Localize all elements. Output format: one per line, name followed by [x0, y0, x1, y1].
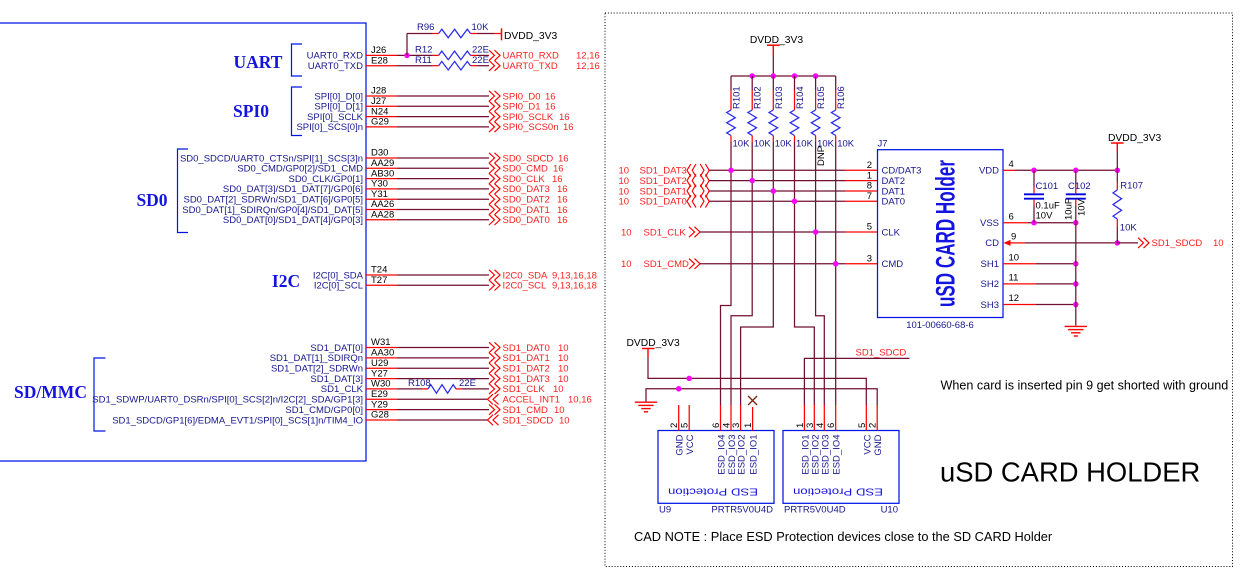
junction SD1_DAT3/pull-up	[728, 168, 734, 174]
svg-text:4: 4	[1009, 159, 1014, 170]
wire net SD0_DAT1	[397, 209, 489, 211]
junction SH2/ground column	[1073, 281, 1079, 287]
svg-text:C102: C102	[1068, 181, 1091, 192]
wire net ACCEL_INT1	[397, 398, 488, 400]
net flag ACCEL_INT1	[488, 394, 592, 406]
pin Y29 SD1_CMD/GP0[0]	[285, 399, 397, 416]
net flag SD1_SDCD (right)	[1138, 238, 1224, 250]
pin 11 SH2 wire	[1003, 273, 1076, 284]
wire ground column	[1075, 206, 1077, 326]
DNP marking R105	[816, 146, 827, 166]
UART group bracket	[292, 44, 303, 76]
wire net SD0_DAT3	[397, 188, 489, 190]
svg-text:ESD_IO4: ESD_IO4	[717, 435, 728, 475]
svg-text:10: 10	[1009, 253, 1020, 264]
power DVDD_3V3 (ESD)	[627, 338, 680, 357]
svg-text:uSD CARD Holder: uSD CARD Holder	[931, 160, 961, 307]
junction SD1_CMD/pull-up	[833, 261, 839, 267]
wire SD1_SDCD (ESD)	[804, 358, 909, 405]
svg-text:10K: 10K	[796, 138, 814, 149]
pin stub J7 pin 5	[845, 222, 878, 233]
pin AA29 SD0_CMD/GP0[2]/SD1_CMD	[237, 158, 397, 175]
svg-text:VSS: VSS	[980, 218, 999, 229]
wire pull-up column R102 to ESD	[731, 142, 752, 405]
svg-text:10K: 10K	[733, 138, 751, 149]
wire net SD1_DAT0	[397, 347, 489, 349]
pin 6 VSS wire	[1003, 211, 1076, 222]
svg-text:22E: 22E	[459, 378, 476, 389]
svg-text:SPI0: SPI0	[233, 101, 269, 121]
wire net SPI0_D1	[397, 105, 489, 107]
svg-text:R106: R106	[836, 86, 847, 109]
svg-text:1: 1	[867, 170, 872, 181]
svg-text:SD/MMC: SD/MMC	[14, 382, 87, 402]
wire SD1_CLK to J7	[700, 231, 845, 233]
net flag SPI0_SCS0n	[489, 122, 574, 134]
svg-text:SH1: SH1	[981, 259, 999, 270]
wire net SPI0_D0	[397, 95, 489, 97]
net label SD1_SDCD	[856, 347, 907, 358]
net flag I2C0_SCL	[489, 280, 597, 292]
wire net SD0_SDCD	[397, 157, 489, 159]
svg-text:ESD_IO4: ESD_IO4	[832, 435, 843, 475]
resistor R105 10K	[811, 76, 834, 149]
svg-text:DNP: DNP	[816, 146, 827, 166]
wire UART0_RXD to R12	[397, 54, 433, 56]
wire SD1_CLK to R108	[397, 388, 422, 390]
net flag SPI0_SCLK	[489, 111, 570, 123]
svg-text:R104: R104	[795, 86, 806, 109]
capacitor C102 10uF 10V	[1064, 170, 1091, 220]
net flag SD1_DAT3	[489, 373, 569, 385]
SD0 group bracket	[178, 149, 189, 233]
pin stub ESD x=678.7	[678, 405, 680, 431]
junction SD1_CLK/pull-up	[813, 229, 819, 235]
svg-text:ESD_IO2: ESD_IO2	[737, 435, 748, 475]
net flag SD1_SDCD	[488, 415, 570, 427]
pin G29 SPI[0]_SCS[0]n	[296, 117, 397, 134]
svg-text:SD1_DAT[0]: SD1_DAT[0]	[310, 343, 363, 354]
svg-text:PRTR5V0U4D: PRTR5V0U4D	[711, 505, 773, 516]
svg-text:R96: R96	[417, 22, 434, 33]
pin T24 I2C[0]_SDA	[313, 265, 397, 282]
svg-text:CLK: CLK	[882, 227, 901, 238]
svg-text:U9: U9	[659, 505, 671, 516]
wire GND rail	[646, 389, 877, 405]
wire pull-up bus	[731, 75, 836, 77]
svg-text:R108: R108	[408, 378, 431, 389]
wire DVDD_3V3 to pull-up bus	[772, 56, 774, 77]
pin stub ESD x=731.0	[730, 405, 732, 431]
power DVDD_3V3 (R107)	[1108, 133, 1161, 152]
pin stub J7 pin 8	[845, 181, 878, 192]
svg-text:10K: 10K	[837, 138, 855, 149]
svg-text:DAT2: DAT2	[882, 176, 906, 187]
svg-text:SD1_CLK: SD1_CLK	[321, 384, 364, 395]
pin stub ESD x=814.3	[813, 405, 815, 431]
svg-text:SD0: SD0	[136, 190, 167, 210]
capacitor C101 0.1uF 10V	[1024, 170, 1060, 222]
net flag SD0_DAT0	[489, 215, 568, 227]
junction VSS/C102	[1073, 220, 1079, 226]
svg-text:10: 10	[621, 259, 632, 270]
pin Y31 SD0_DAT[2]_SDRWn/SD1_DAT[6]/GP0[5]	[183, 189, 397, 206]
resistor R107 10K	[1113, 152, 1143, 243]
pin W31 SD1_DAT[0]	[310, 337, 397, 354]
svg-text:T27: T27	[371, 275, 387, 286]
section label SD0	[136, 190, 167, 210]
power DVDD_3V3 (R96)	[502, 28, 558, 42]
svg-text:R103: R103	[774, 86, 785, 109]
pin E28 UART0_TXD	[308, 55, 397, 72]
junction SH1/ground column	[1073, 261, 1079, 267]
svg-text:CD: CD	[985, 238, 999, 249]
net flag SD0_DAT3	[489, 184, 568, 196]
svg-text:R107: R107	[1120, 181, 1143, 192]
section label UART	[234, 52, 283, 72]
wire net SD1_DAT2	[397, 367, 489, 369]
pin D30 SD0_SDCD/UART0_CTSn/SPI[1]_SCS[3]n	[180, 148, 397, 165]
junction VDD/C101	[1031, 168, 1037, 174]
svg-text:5: 5	[867, 222, 872, 233]
svg-text:10K: 10K	[754, 138, 772, 149]
wire net SD1_CMD	[397, 409, 489, 411]
svg-text:PRTR5V0U4D: PRTR5V0U4D	[784, 505, 846, 516]
wire net SPI0_SCS0n	[397, 126, 489, 128]
svg-text:10: 10	[621, 227, 632, 238]
wire net SD0_CLK	[397, 178, 489, 180]
resistor R12 22E	[415, 45, 489, 60]
svg-text:22E: 22E	[472, 55, 489, 66]
net flag SD1_DAT1	[619, 185, 710, 198]
svg-text:10K: 10K	[1120, 222, 1138, 233]
junction SD1_DAT1/pull-up	[771, 188, 777, 194]
resistor R101 10K	[727, 76, 750, 149]
resistor R102 10K	[748, 76, 771, 149]
net flag SD1_CLK	[621, 227, 700, 239]
pin stub J7 pin 3	[845, 254, 878, 265]
svg-text:SD1_CLK: SD1_CLK	[644, 227, 687, 238]
wire net I2C0_SCL	[397, 284, 489, 286]
wire SD1_DAT3 to J7	[709, 169, 845, 171]
section label I2C	[272, 271, 300, 291]
svg-text:10uF: 10uF	[1064, 198, 1075, 220]
pin AA30 SD1_DAT[1]_SDIRQn	[270, 348, 397, 365]
svg-text:U29: U29	[371, 358, 388, 369]
junction GND rail/U9	[676, 386, 682, 392]
wire pull-up column R101 to ESD	[721, 142, 732, 405]
svg-text:SD1_SDCD10: SD1_SDCD10	[503, 415, 570, 426]
net flag SD1_DAT2	[619, 174, 710, 187]
wire net SPI0_SCLK	[397, 116, 489, 118]
svg-text:E28: E28	[371, 55, 388, 66]
no-connect X U9 pin 1	[748, 396, 757, 405]
pin AB30 SD0_CLK/GP0[1]	[289, 168, 397, 185]
svg-text:uSD CARD HOLDER: uSD CARD HOLDER	[940, 457, 1200, 488]
svg-text:DAT0: DAT0	[882, 197, 906, 208]
svg-text:R102: R102	[753, 86, 764, 109]
net flag SD1_CMD	[621, 259, 700, 271]
junction VDD/C102	[1073, 168, 1079, 174]
svg-text:7: 7	[867, 191, 872, 202]
note: card inserted	[941, 379, 1229, 393]
junction bus/R103	[771, 73, 777, 79]
pin 10 SH1 wire	[1003, 253, 1076, 264]
SD/MMC group bracket	[94, 358, 106, 431]
resistor R106 10K	[831, 76, 854, 149]
svg-text:R105: R105	[816, 86, 827, 109]
svg-text:ESD_IO1: ESD_IO1	[749, 435, 760, 475]
svg-text:R11: R11	[415, 55, 432, 66]
net flag SD0_CMD	[489, 163, 564, 175]
svg-text:VCC: VCC	[862, 434, 873, 454]
ESD protection U10 PRTR5V0U4D	[783, 423, 899, 516]
svg-text:101-00660-68-6: 101-00660-68-6	[906, 320, 974, 331]
junction VSS/C101	[1031, 220, 1037, 226]
svg-text:10K: 10K	[472, 22, 490, 33]
svg-text:AA28: AA28	[371, 210, 394, 221]
pin J28 SPI[0]_D[0]	[314, 86, 397, 103]
pin J26 UART0_RXD	[307, 45, 397, 62]
pin Y27 SD1_DAT[3]	[310, 368, 397, 385]
svg-text:SD1_SDCD10: SD1_SDCD10	[1152, 238, 1224, 249]
svg-text:J7: J7	[878, 138, 888, 149]
pin J27 SPI[0]_D[1]	[314, 96, 397, 113]
net flag SD0_SDCD	[489, 153, 569, 165]
pin stub ESD x=804.4	[803, 405, 805, 431]
MCU block body	[0, 23, 366, 461]
svg-text:ESD_IO3: ESD_IO3	[820, 435, 831, 475]
resistor R11 22E	[415, 55, 489, 70]
svg-text:G28: G28	[371, 410, 389, 421]
pin stub ESD x=824.3	[823, 405, 825, 431]
svg-text:3: 3	[867, 254, 872, 265]
wire net SD1_DAT1	[397, 357, 489, 359]
svg-text:10: 10	[619, 176, 630, 187]
pin stub ESD x=689.2	[688, 405, 690, 431]
junction UART0_RXD/R96	[404, 53, 410, 59]
wire CD to flag	[1117, 242, 1138, 244]
svg-text:UART0_TXD: UART0_TXD	[308, 61, 363, 72]
pin U29 SD1_DAT[2]_SDRWn	[271, 358, 397, 375]
svg-text:SH3: SH3	[981, 300, 999, 311]
svg-text:I2C: I2C	[272, 271, 300, 291]
net flag SD1_DAT0	[619, 195, 710, 208]
pin T27 I2C[0]_SCL	[314, 275, 397, 292]
svg-text:CMD: CMD	[882, 259, 904, 270]
junction bus/R105	[813, 73, 819, 79]
pin E29 SD1_SDWP/UART0_DSRn/SPI[0]_SCS[2]n/I2C[2]_SDA/GP1[3]	[92, 389, 397, 406]
net flag I2C0_SDA	[489, 270, 597, 282]
pin stub ESD x=866.3	[865, 405, 867, 431]
junction VDD/R107	[1115, 168, 1121, 174]
svg-text:I2C[0]_SCL: I2C[0]_SCL	[314, 281, 363, 292]
pin AA28 SD0_DAT[0]/SD1_DAT[4]/GP0[3]	[223, 210, 397, 227]
svg-text:Y29: Y29	[371, 399, 388, 410]
svg-text:10V: 10V	[1036, 211, 1054, 222]
svg-text:DVDD_3V3: DVDD_3V3	[504, 31, 557, 42]
svg-text:12: 12	[1009, 293, 1020, 304]
wire net SD0_DAT2	[397, 198, 489, 200]
note: CAD NOTE	[634, 529, 1053, 544]
junction bus/R104	[792, 73, 798, 79]
net flag SD1_CMD	[489, 404, 565, 416]
pin 4 VDD wire	[1003, 159, 1117, 170]
svg-text:11: 11	[1009, 273, 1019, 284]
net flag SPI0_D0	[489, 91, 556, 103]
pin W30 SD1_CLK	[321, 379, 397, 396]
svg-text:10V: 10V	[1077, 198, 1088, 216]
svg-text:22E: 22E	[472, 45, 489, 56]
pin stub J7 pin 1	[845, 170, 878, 181]
wire net SD1_DAT3	[397, 378, 489, 380]
svg-text:R12: R12	[415, 45, 432, 56]
pin stub ESD x=720.5	[720, 405, 722, 431]
wire UART0_TXD to R11	[397, 65, 433, 67]
power DVDD_3V3 (pull-up bank)	[750, 35, 803, 55]
wire pull-up column R105 to ESD	[816, 142, 825, 405]
wire net SD0_CMD	[397, 167, 489, 169]
junction VCC rail/U9	[686, 376, 692, 382]
svg-text:W30: W30	[371, 379, 391, 390]
svg-text:SD1_CMD/GP0[0]: SD1_CMD/GP0[0]	[285, 405, 363, 416]
connector J7 uSD CARD Holder	[878, 138, 1004, 330]
resistor R104 10K	[790, 76, 813, 149]
net flag SD1_DAT0	[489, 342, 569, 354]
pin Y30 SD0_DAT[3]/SD1_DAT[7]/GP0[6]	[223, 179, 397, 196]
net flag SD1_DAT3	[619, 164, 710, 177]
svg-text:SD1_DAT010: SD1_DAT010	[503, 343, 569, 354]
junction SH3/ground column	[1073, 302, 1079, 308]
net flag SD1_DAT1	[489, 353, 569, 365]
svg-text:GND: GND	[873, 434, 884, 455]
pin G28 SD1_SDCD/GP1[6]/EDMA_EVT1/SPI[0]_SCS[1]n/TIM4_IO	[112, 410, 397, 427]
svg-text:SPI[0]_SCS[0]n: SPI[0]_SCS[0]n	[296, 122, 363, 133]
wire SD1_DAT2 to J7	[709, 180, 845, 182]
svg-text:VDD: VDD	[979, 166, 999, 177]
svg-text:W31: W31	[371, 337, 391, 348]
pin stub ESD x=835.7	[835, 405, 837, 431]
svg-text:SD1_DAT210: SD1_DAT210	[503, 364, 569, 375]
svg-text:10: 10	[619, 197, 630, 208]
ground (ESD rail)	[635, 402, 657, 412]
pin stub ESD x=877.2	[876, 405, 878, 431]
svg-text:When card is inserted pin 9 ge: When card is inserted pin 9 get shorted …	[941, 379, 1229, 393]
junction SD1_DAT0/pull-up	[792, 199, 798, 205]
svg-text:VCC: VCC	[685, 434, 696, 454]
svg-text:R101: R101	[732, 86, 743, 109]
pin stub U9 ESD_IO1 (no connect)	[752, 407, 754, 431]
net flag SD0_DAT2	[489, 194, 568, 206]
wire pull-up column R104 to ESD	[795, 142, 815, 405]
wire SD1_CMD to J7	[700, 263, 845, 265]
svg-text:SD1_CLK10: SD1_CLK10	[503, 384, 564, 395]
page border (dotted)	[605, 13, 1233, 567]
svg-text:G29: G29	[371, 117, 389, 128]
section label SPI0	[233, 101, 269, 121]
svg-text:SD0_DAT[0]/SD1_DAT[4]/GP0[3]: SD0_DAT[0]/SD1_DAT[4]/GP0[3]	[223, 215, 363, 226]
net flag SPI0_D1	[489, 101, 556, 113]
wire R96 branch vertical	[407, 34, 433, 56]
svg-text:GND: GND	[675, 434, 686, 455]
svg-text:C101: C101	[1036, 181, 1059, 192]
svg-text:U10: U10	[881, 505, 898, 516]
wire SD1_DAT0 to J7	[709, 200, 845, 202]
svg-text:SD1_DAT0: SD1_DAT0	[640, 197, 687, 208]
pin N24 SPI[0]_SCLK	[307, 106, 397, 123]
svg-text:6: 6	[1009, 211, 1014, 222]
wire net I2C0_SDA	[397, 274, 489, 276]
resistor R96 10K	[417, 22, 501, 38]
section label SD/MMC	[14, 382, 87, 402]
wire SD1_DAT1 to J7	[709, 190, 845, 192]
pin AA26 SD0_DAT[1]_SDIRQn/GP0[4]/SD1_DAT[5]	[182, 199, 397, 216]
wire net SD0_DAT0	[397, 219, 489, 221]
pin stub J7 pin 2	[845, 160, 878, 171]
resistor R103 10K	[769, 76, 792, 149]
wire pull-up column R103 to ESD	[741, 142, 774, 405]
svg-text:UART0_TXD12,16: UART0_TXD12,16	[503, 61, 600, 72]
wire VCC rail	[648, 357, 866, 405]
junction CD/R107	[1115, 240, 1121, 246]
svg-text:SD1_DAT2: SD1_DAT2	[640, 176, 687, 187]
svg-text:SD1_CMD: SD1_CMD	[644, 259, 690, 270]
ground (J7)	[1065, 326, 1087, 336]
svg-text:SD1_SDCD/GP1[6]/EDMA_EVT1/SPI[: SD1_SDCD/GP1[6]/EDMA_EVT1/SPI[0]_SCS[1]n…	[112, 415, 363, 426]
svg-text:10K: 10K	[775, 138, 793, 149]
net flag UART0_TXD	[489, 61, 600, 73]
net flag SD0_DAT1	[489, 204, 568, 216]
svg-text:SH2: SH2	[981, 279, 999, 290]
pin stub J7 pin 7	[845, 191, 878, 202]
wire pull-up column R106 to ESD	[835, 142, 837, 405]
SPI0 group bracket	[292, 87, 303, 136]
junction bus/R102	[749, 73, 755, 79]
svg-text:SD1_SDCD: SD1_SDCD	[856, 347, 907, 358]
junction SD1_DAT2/pull-up	[749, 178, 755, 184]
net flag UART0_RXD	[489, 50, 600, 62]
svg-text:SPI0_SCS0n16: SPI0_SCS0n16	[503, 122, 574, 133]
svg-text:ESD Protection: ESD Protection	[668, 486, 758, 498]
net flag SD0_CLK	[489, 173, 563, 185]
pin 9 CD wire with arrow	[1004, 232, 1118, 246]
title uSD CARD HOLDER	[940, 457, 1200, 488]
svg-text:SD0_DAT016: SD0_DAT016	[503, 215, 568, 226]
ESD protection U9 PRTR5V0U4D	[658, 423, 774, 516]
svg-text:DVDD_3V3: DVDD_3V3	[627, 338, 680, 349]
svg-text:UART: UART	[234, 52, 283, 72]
net flag SD1_DAT2	[489, 363, 569, 375]
pin 12 SH3 wire	[1003, 293, 1076, 304]
net flag SD1_CLK	[489, 384, 564, 396]
svg-text:9: 9	[1011, 232, 1016, 243]
wire net SD1_SDCD	[397, 419, 488, 421]
svg-text:SD1_DAT[2]_SDRWn: SD1_DAT[2]_SDRWn	[271, 364, 363, 375]
svg-text:ESD Protection: ESD Protection	[793, 486, 883, 498]
resistor R108 22E	[408, 378, 489, 393]
pin stub ESD x=740.6	[740, 405, 742, 431]
svg-text:CAD NOTE : Place ESD Protectio: CAD NOTE : Place ESD Protection devices …	[634, 529, 1053, 544]
svg-text:SD1_CMD10: SD1_CMD10	[503, 405, 565, 416]
